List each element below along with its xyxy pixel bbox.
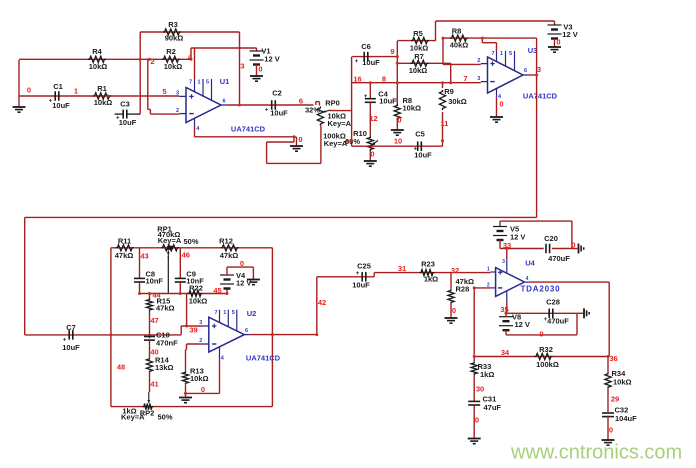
svg-text:C28: C28 — [546, 297, 560, 306]
svg-text:2: 2 — [176, 108, 179, 114]
svg-text:10uF: 10uF — [52, 101, 70, 110]
svg-text:R4: R4 — [92, 47, 102, 56]
svg-text:www.cntronics.com: www.cntronics.com — [510, 442, 682, 464]
svg-text:+: + — [265, 108, 269, 114]
svg-text:8: 8 — [382, 74, 386, 83]
svg-text:47uF: 47uF — [484, 403, 502, 412]
svg-text:12 V: 12 V — [562, 30, 577, 39]
svg-text:47: 47 — [150, 316, 158, 325]
svg-text:1: 1 — [487, 266, 490, 272]
svg-text:50%: 50% — [183, 237, 198, 246]
svg-text:R12: R12 — [219, 236, 233, 245]
svg-text:0: 0 — [201, 385, 205, 394]
svg-text:Key=A: Key=A — [328, 119, 352, 128]
svg-text:10uF: 10uF — [352, 280, 370, 289]
svg-text:0: 0 — [556, 37, 560, 46]
svg-text:10kΩ: 10kΩ — [189, 296, 208, 305]
svg-text:50%: 50% — [157, 412, 172, 421]
svg-text:10kΩ: 10kΩ — [94, 98, 113, 107]
svg-text:R8: R8 — [452, 26, 462, 35]
svg-text:10kΩ: 10kΩ — [409, 66, 428, 75]
svg-text:34: 34 — [501, 348, 510, 357]
svg-text:5: 5 — [162, 87, 166, 96]
svg-text:10uF: 10uF — [62, 343, 80, 352]
svg-text:RP0: RP0 — [325, 99, 340, 108]
svg-text:R3: R3 — [168, 20, 178, 29]
svg-text:R2: R2 — [166, 47, 176, 56]
svg-text:+: + — [356, 271, 360, 277]
svg-text:C2: C2 — [272, 88, 282, 97]
svg-text:R22: R22 — [189, 283, 203, 292]
svg-text:40kΩ: 40kΩ — [450, 40, 469, 49]
svg-text:3: 3 — [537, 65, 541, 74]
svg-text:4: 4 — [526, 276, 529, 282]
svg-text:7: 7 — [463, 74, 467, 83]
svg-text:UA741CD: UA741CD — [523, 91, 558, 100]
svg-text:2: 2 — [477, 58, 480, 64]
svg-text:6: 6 — [222, 98, 225, 104]
svg-text:0: 0 — [452, 306, 456, 315]
svg-text:+: + — [49, 99, 53, 105]
svg-text:1: 1 — [197, 79, 200, 85]
svg-text:48: 48 — [117, 362, 125, 371]
svg-text:470uF: 470uF — [547, 316, 569, 325]
svg-text:10uF: 10uF — [119, 118, 137, 127]
svg-text:Key=A: Key=A — [121, 412, 145, 421]
svg-text:6: 6 — [299, 96, 303, 105]
svg-text:9: 9 — [390, 47, 394, 56]
svg-text:5: 5 — [232, 310, 235, 316]
svg-text:10uF: 10uF — [270, 108, 288, 117]
svg-text:30: 30 — [476, 384, 484, 393]
svg-text:39: 39 — [189, 325, 197, 334]
svg-text:5: 5 — [206, 79, 209, 85]
svg-text:11: 11 — [441, 119, 449, 128]
svg-text:12 V: 12 V — [515, 320, 530, 329]
svg-text:+: + — [355, 59, 359, 65]
svg-text:3: 3 — [477, 76, 480, 82]
svg-text:10kΩ: 10kΩ — [190, 374, 209, 383]
svg-text:31: 31 — [398, 264, 406, 273]
svg-text:0: 0 — [298, 135, 302, 144]
svg-text:2: 2 — [199, 338, 202, 344]
svg-text:46: 46 — [182, 250, 190, 259]
svg-text:10uF: 10uF — [379, 96, 397, 105]
svg-text:0: 0 — [475, 415, 479, 424]
svg-text:C6: C6 — [361, 42, 371, 51]
svg-text:TDA2030: TDA2030 — [521, 285, 561, 294]
svg-text:UA741CD: UA741CD — [231, 124, 266, 133]
svg-text:+: + — [116, 115, 120, 121]
svg-text:Key=A: Key=A — [158, 236, 182, 245]
svg-text:R7: R7 — [414, 52, 424, 61]
svg-text:7: 7 — [189, 79, 192, 85]
svg-text:+: + — [364, 94, 368, 100]
svg-text:35: 35 — [500, 305, 508, 314]
svg-text:0: 0 — [499, 99, 503, 108]
svg-text:104uF: 104uF — [615, 414, 637, 423]
svg-text:47kΩ: 47kΩ — [220, 251, 239, 260]
svg-text:10nF: 10nF — [146, 276, 164, 285]
svg-text:1kΩ: 1kΩ — [424, 274, 438, 283]
svg-text:0: 0 — [397, 115, 401, 124]
svg-text:41: 41 — [150, 379, 158, 388]
svg-text:U4: U4 — [525, 258, 535, 267]
svg-text:+: + — [63, 338, 67, 344]
svg-text:10kΩ: 10kΩ — [403, 103, 422, 112]
svg-text:U2: U2 — [247, 309, 257, 318]
svg-text:1kΩ: 1kΩ — [480, 370, 494, 379]
svg-text:47kΩ: 47kΩ — [156, 303, 175, 312]
svg-text:C3: C3 — [120, 99, 130, 108]
svg-text:1: 1 — [74, 86, 78, 95]
svg-text:10uF: 10uF — [362, 58, 380, 67]
svg-text:13kΩ: 13kΩ — [155, 363, 174, 372]
svg-text:0: 0 — [240, 259, 244, 268]
svg-text:C1: C1 — [53, 82, 63, 91]
svg-text:32: 32 — [451, 266, 459, 275]
svg-text:43: 43 — [140, 251, 148, 260]
svg-text:12 V: 12 V — [236, 279, 251, 288]
svg-text:R1: R1 — [97, 84, 107, 93]
svg-text:C5: C5 — [415, 129, 425, 138]
svg-text:0: 0 — [370, 149, 374, 158]
svg-text:0: 0 — [609, 425, 613, 434]
svg-text:42: 42 — [318, 298, 326, 307]
svg-text:1: 1 — [223, 310, 226, 316]
svg-text:3: 3 — [199, 320, 202, 326]
svg-text:45: 45 — [213, 286, 221, 295]
svg-text:0: 0 — [258, 64, 262, 73]
svg-text:3: 3 — [502, 259, 505, 265]
svg-text:R28: R28 — [456, 284, 470, 293]
svg-text:U1: U1 — [220, 77, 230, 86]
svg-text:C20: C20 — [544, 234, 558, 243]
svg-text:10: 10 — [394, 136, 402, 145]
svg-text:6: 6 — [524, 68, 527, 74]
svg-text:R5: R5 — [413, 29, 423, 38]
svg-text:C7: C7 — [66, 323, 76, 332]
svg-text:10kΩ: 10kΩ — [613, 377, 632, 386]
svg-text:2: 2 — [150, 57, 154, 66]
svg-text:+: + — [414, 147, 418, 153]
svg-text:470nF: 470nF — [156, 338, 178, 347]
svg-text:UA741CD: UA741CD — [246, 353, 281, 362]
svg-text:12 V: 12 V — [264, 54, 279, 63]
svg-text:470uF: 470uF — [548, 254, 570, 263]
svg-text:U3: U3 — [528, 46, 538, 55]
svg-text:10kΩ: 10kΩ — [164, 62, 183, 71]
svg-text:47kΩ: 47kΩ — [115, 251, 134, 260]
svg-text:100kΩ: 100kΩ — [536, 360, 559, 369]
svg-text:32%: 32% — [305, 105, 320, 114]
svg-text:0: 0 — [539, 329, 543, 338]
svg-text:29: 29 — [611, 394, 619, 403]
svg-text:0: 0 — [27, 85, 31, 94]
svg-text:90kΩ: 90kΩ — [165, 33, 184, 42]
svg-text:R9: R9 — [444, 87, 454, 96]
svg-text:6: 6 — [245, 328, 248, 334]
svg-text:12: 12 — [369, 114, 377, 123]
svg-text:R11: R11 — [118, 236, 131, 245]
svg-text:1: 1 — [500, 51, 503, 57]
svg-text:3: 3 — [176, 90, 179, 96]
svg-text:36: 36 — [609, 354, 617, 363]
svg-text:7: 7 — [214, 310, 217, 316]
svg-text:C25: C25 — [357, 261, 371, 270]
svg-text:R23: R23 — [421, 259, 435, 268]
svg-text:R32: R32 — [539, 345, 553, 354]
svg-text:10kΩ: 10kΩ — [89, 62, 108, 71]
svg-text:12 V: 12 V — [510, 232, 525, 241]
svg-text:3: 3 — [240, 61, 244, 70]
svg-text:30kΩ: 30kΩ — [448, 97, 467, 106]
svg-text:7: 7 — [491, 51, 494, 57]
svg-text:5: 5 — [509, 51, 512, 57]
